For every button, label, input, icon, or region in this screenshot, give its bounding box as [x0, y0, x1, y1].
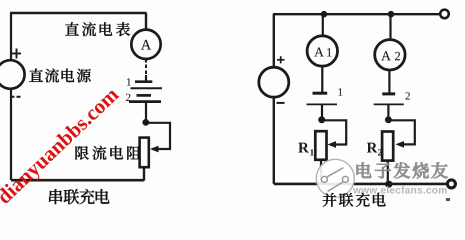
wire R2 to bottom rail — [387, 161, 389, 184]
wire left vertical lower (parallel circuit) — [273, 97, 275, 184]
wire top horizontal (series circuit) — [10, 12, 147, 15]
watermark red dianyuanbbs.com — [0, 86, 123, 208]
ammeter A2 — [375, 40, 405, 70]
battery cell 1 short plate — [135, 80, 152, 83]
battery cell 2 short plate — [137, 94, 152, 97]
rheostat R1 body — [315, 131, 326, 160]
minus terminal label — [11, 96, 21, 98]
battery label 2 — [405, 92, 409, 99]
ammeter A (series circuit) — [131, 30, 160, 59]
stray mark bottom right — [446, 198, 450, 201]
caption parallel charging (binglian chongdian) — [323, 193, 386, 207]
caption series charging (chuanlian chongdian) — [49, 189, 109, 204]
label DC ammeter (zhiliu dianbiao) — [65, 22, 130, 36]
wire to ammeter A2 — [389, 14, 391, 39]
wire A1 to battery 1 — [321, 66, 323, 92]
label DC power source (zhiliu dianyuan) — [29, 69, 91, 83]
wire top horizontal (parallel circuit) — [273, 13, 440, 15]
junction dot top of A2 branch — [388, 11, 395, 18]
watermark url www.elecfans.com — [353, 186, 447, 193]
watermark text elecfans (dianzi fashaoyou) — [357, 162, 448, 178]
DC power source circle (left) — [0, 60, 25, 89]
open terminal top right — [440, 10, 449, 19]
plus terminal label — [12, 49, 21, 59]
watermark logo circle (elecfans) — [316, 159, 354, 197]
junction dot above rheostat — [142, 119, 149, 126]
battery cell label 1 — [127, 78, 131, 85]
wire battery 1 to junction — [321, 104, 323, 119]
junction dot above R1 — [318, 116, 325, 123]
wire battery to junction — [145, 102, 147, 123]
label R2 — [367, 143, 382, 156]
battery 1 short plate — [313, 92, 328, 95]
DC power source circle (right) — [259, 67, 289, 97]
wire bottom rail (parallel circuit) — [274, 183, 448, 186]
battery 2 short plate — [382, 92, 395, 95]
wire right vertical to ammeter — [145, 13, 147, 30]
rheostat body (limiting resistor) — [140, 138, 149, 168]
battery label 1 — [338, 88, 342, 95]
plus mark near source — [277, 56, 285, 63]
wiper wire loop R2 — [388, 120, 414, 148]
wire to ammeter A1 — [322, 14, 324, 36]
wire ammeter to battery (partly dashed) — [145, 59, 147, 82]
label limiting resistor (xianliu dianzu) — [75, 146, 140, 160]
wire rheostat to bottom rail — [143, 167, 145, 180]
open terminal bottom right — [447, 180, 455, 188]
wire left vertical (series circuit) — [10, 13, 12, 180]
ammeter A1 — [307, 36, 337, 66]
rheostat R2 body — [382, 132, 393, 161]
battery cell 2 long plate — [129, 100, 161, 103]
label R1 — [298, 143, 314, 156]
wire R1 to bottom rail — [320, 160, 322, 184]
battery 2 long plate — [374, 103, 404, 105]
minus mark near source — [277, 102, 285, 104]
junction dot R2 at bottom rail — [385, 181, 392, 188]
wiper wire loop R1 — [322, 120, 347, 148]
wiper wire loop (series rheostat) — [146, 123, 170, 153]
battery cell 1 long plate — [131, 87, 163, 89]
junction dot above R2 — [385, 116, 392, 123]
wire left vertical (parallel circuit) — [273, 14, 275, 68]
wire battery 2 to junction — [387, 104, 389, 119]
wire A2 to battery 2 — [388, 70, 390, 93]
wire bottom horizontal (series circuit) — [11, 179, 144, 182]
junction dot top of A1 branch — [321, 11, 328, 18]
battery cell label 2 — [126, 94, 130, 101]
battery 1 long plate — [307, 103, 338, 105]
